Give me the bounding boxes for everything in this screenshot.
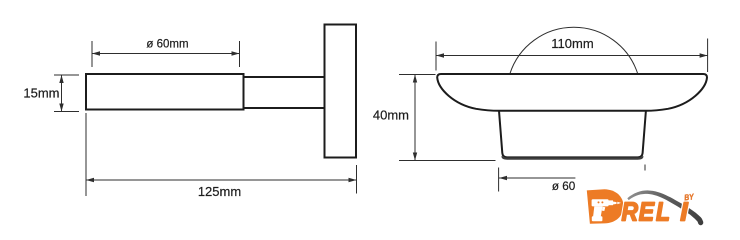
- svg-text:125mm: 125mm: [198, 184, 241, 199]
- svg-text:110mm: 110mm: [551, 36, 593, 51]
- svg-text:ø 60mm: ø 60mm: [146, 39, 188, 51]
- svg-text:L: L: [656, 198, 670, 227]
- svg-text:E: E: [639, 198, 655, 227]
- svg-text:R: R: [622, 198, 639, 227]
- svg-text:40mm: 40mm: [373, 108, 409, 123]
- svg-text:15mm: 15mm: [23, 86, 59, 101]
